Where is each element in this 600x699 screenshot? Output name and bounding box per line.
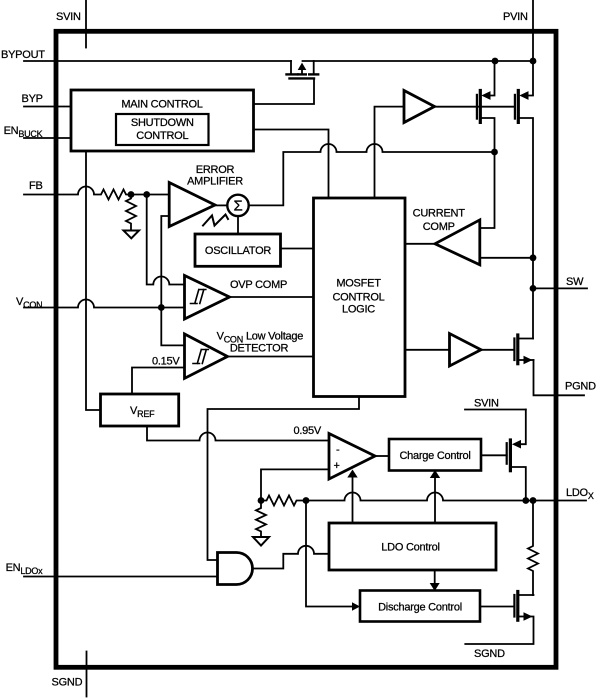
svg-text:ERROR: ERROR xyxy=(196,164,235,176)
svg-text:CONTROL: CONTROL xyxy=(136,130,188,142)
wire 0.15V from VREF to detector xyxy=(132,368,185,395)
svg-text:PVIN: PVIN xyxy=(503,11,528,23)
svg-text:SW: SW xyxy=(566,276,584,288)
wire sigma to oscillator xyxy=(237,216,239,234)
pin PVIN (top right) xyxy=(532,0,534,61)
op-amp U1 error amplifier xyxy=(169,183,215,227)
svg-text:0.15V: 0.15V xyxy=(152,356,180,368)
pin BYP wire xyxy=(24,106,71,108)
buffer U6 (low-side gate driver) xyxy=(450,334,482,367)
resistor R2 FB to ground xyxy=(126,195,136,231)
svg-text:MAIN CONTROL: MAIN CONTROL xyxy=(121,99,202,111)
wire current comp bottom input from SW node xyxy=(480,257,533,259)
wire MCL to buffer U6 xyxy=(405,349,450,351)
svg-text:PGND: PGND xyxy=(565,381,596,393)
chip outline border xyxy=(56,31,556,667)
comparator U3 VCON low voltage detector xyxy=(185,334,228,378)
wire current comp top input from sense node xyxy=(480,152,495,228)
box SHUTDOWN CONTROL xyxy=(116,114,209,145)
svg-text:Discharge Control: Discharge Control xyxy=(378,602,462,614)
ground for R4 xyxy=(253,537,269,546)
summing node sigma xyxy=(227,195,248,216)
svg-text:AMPLIFIER: AMPLIFIER xyxy=(187,176,243,188)
svg-text:SHUTDOWN: SHUTDOWN xyxy=(131,117,194,129)
pin ENLDOx wire xyxy=(24,576,218,578)
wire FB node to OVP input with hop xyxy=(147,195,185,285)
wire feedback node to Discharge Control input (arrow right) xyxy=(306,501,353,607)
pin FB wire with hop, resistor R1 and node dots xyxy=(24,187,169,200)
wire oscillator to MCL xyxy=(281,248,314,250)
pin PGND stub (from NMOS source) xyxy=(534,360,585,395)
wire current comp output to MCL xyxy=(405,243,435,245)
svg-text:0.95V: 0.95V xyxy=(294,425,322,437)
svg-text:SVIN: SVIN xyxy=(474,398,499,410)
svg-text:COMP: COMP xyxy=(423,221,455,233)
wire detector output to MCL xyxy=(228,356,314,358)
wire MCL bottom to AND gate top input xyxy=(208,397,360,561)
wire buffer U4 output to PMOS gates xyxy=(435,106,515,108)
svg-text:DETECTOR: DETECTOR xyxy=(230,343,289,355)
buffer U4 (top gate driver) xyxy=(404,91,435,123)
wire Q6 source to SGND stub xyxy=(465,617,533,645)
wire MAIN CONTROL to MCL (x=328.5 vertical) xyxy=(254,130,329,199)
box VREF xyxy=(101,394,179,426)
ground for R2 xyxy=(124,231,140,239)
svg-text:SVIN: SVIN xyxy=(56,11,81,23)
svg-text:Charge Control: Charge Control xyxy=(399,450,470,462)
svg-text:OSCILLATOR: OSCILLATOR xyxy=(205,245,271,257)
hysteresis glyph in U3 xyxy=(193,350,208,364)
box Charge Control xyxy=(389,439,481,471)
pin SVIN internal stub (charge pump) xyxy=(465,409,526,411)
gate U8 AND xyxy=(218,553,253,585)
wire buffer U4 input from MCL top xyxy=(375,107,405,198)
wire VREF bottom to 0.95V comparator minus input with hop xyxy=(147,426,329,441)
svg-text:OVP COMP: OVP COMP xyxy=(230,279,287,291)
pin SVIN (top left) xyxy=(85,0,87,48)
transistor Q5 charge PMOS xyxy=(506,443,508,464)
svg-text:LDO Control: LDO Control xyxy=(381,542,439,554)
box MOSFET CONTROL LOGIC xyxy=(314,198,406,397)
wire sigma output to current sense node (y=152) with hops xyxy=(249,144,495,205)
box LDO Control xyxy=(329,523,496,570)
svg-text:BYP: BYP xyxy=(22,93,43,105)
svg-text:CURRENT: CURRENT xyxy=(413,208,466,220)
svg-text:+: + xyxy=(334,460,340,472)
svg-text:LOGIC: LOGIC xyxy=(342,304,375,316)
pin VCON wire with hop xyxy=(24,300,185,308)
svg-text:MOSFET: MOSFET xyxy=(336,278,381,290)
transistor Q6 discharge NMOS xyxy=(513,595,515,617)
comparator U7 0.95V xyxy=(329,434,375,480)
wire Q1 gate to MAIN CONTROL xyxy=(254,78,315,104)
box Discharge Control xyxy=(360,591,480,622)
transistor Q2 high-side PMOS left xyxy=(489,61,495,96)
comparator U5 CURRENT COMP xyxy=(435,220,480,265)
wire buffer U6 output to Q4 gate xyxy=(481,349,514,351)
wire LDO Control to Discharge Control (arrow down) xyxy=(434,570,436,583)
wire AND output to LDO Control with hop xyxy=(253,546,330,569)
svg-text:FB: FB xyxy=(29,180,43,192)
pin ENBUCK wire xyxy=(24,137,71,139)
sawtooth symbol xyxy=(203,215,228,226)
transistor Q1 bypass FET xyxy=(290,61,292,73)
resistor R4 feedback to ground xyxy=(256,501,266,538)
pin SW stub xyxy=(533,287,587,289)
wire LDOx feedback rail with resistor R3 and hops xyxy=(261,493,586,506)
wire PVIN rail right segment to PMOS sources xyxy=(303,60,534,62)
wire MAIN CONTROL bottom to VREF (x=86 vertical) xyxy=(86,151,101,410)
wire LDO Control to comparator (arrow up) xyxy=(352,477,354,523)
svg-text:Σ: Σ xyxy=(233,198,242,215)
wire U7 output to Charge Control xyxy=(375,455,389,457)
wire error amp inverting input from x=161.3 rail xyxy=(161,216,184,345)
box OSCILLATOR xyxy=(195,234,281,266)
svg-text:CONTROL: CONTROL xyxy=(332,292,384,304)
svg-text:SGND: SGND xyxy=(474,648,505,660)
wire U7 plus input from LDOx feedback xyxy=(261,469,329,500)
pin BYPOUT wire xyxy=(24,60,291,62)
pin SGND (bottom left) xyxy=(86,652,88,697)
transistor Q4 low-side NMOS xyxy=(513,339,515,361)
wire OVP output to MCL xyxy=(230,296,314,298)
wire error amp output to sigma xyxy=(215,204,227,206)
svg-text:BYPOUT: BYPOUT xyxy=(1,49,45,61)
hysteresis glyph in U2 xyxy=(191,290,206,304)
node dots xyxy=(128,58,537,504)
transistor Q3 high-side PMOS right xyxy=(527,61,534,96)
comparator U2 OVP COMP xyxy=(185,276,230,320)
svg-text:-: - xyxy=(336,444,340,456)
svg-text:SGND: SGND xyxy=(52,677,83,689)
wire Discharge Control to Q6 gate xyxy=(480,606,514,608)
resistor R5 LDOx to discharge NMOS xyxy=(528,501,538,596)
wire LDO Control to Charge Control (arrow up) xyxy=(434,478,436,523)
box MAIN CONTROL xyxy=(71,90,254,151)
wire Charge Control to Q5 gate xyxy=(481,454,507,456)
